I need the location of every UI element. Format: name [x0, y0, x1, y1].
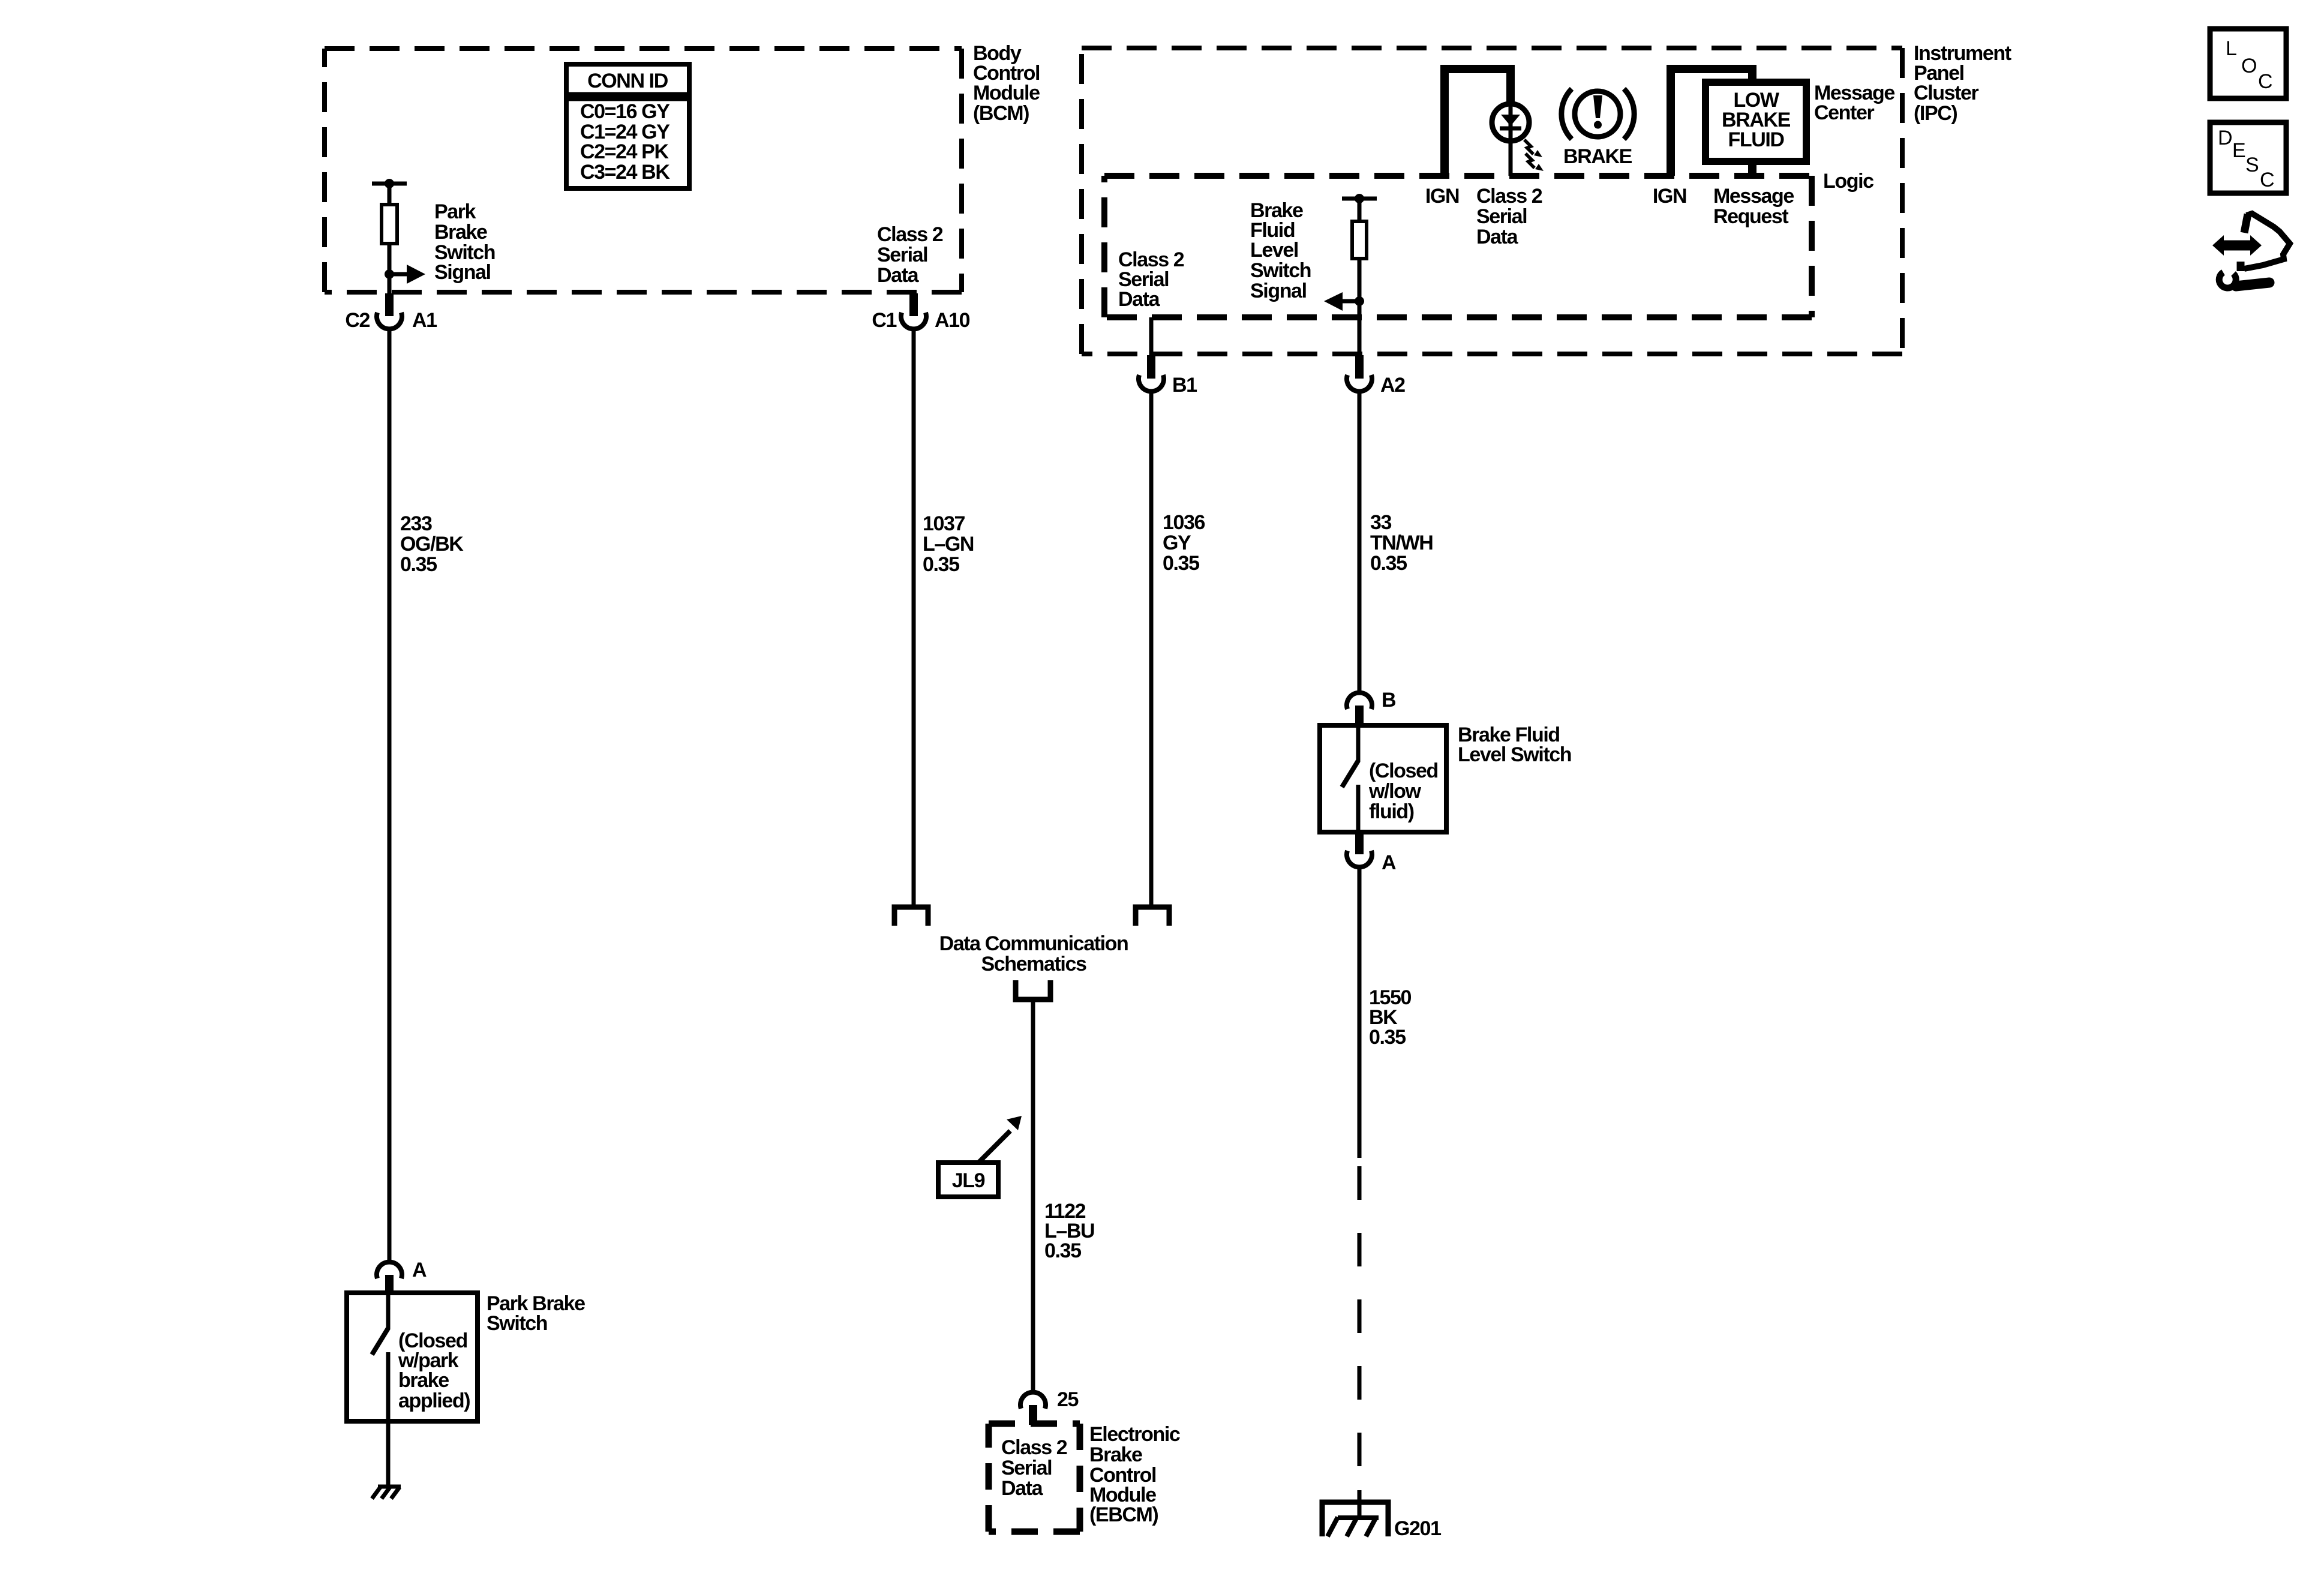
switch: park brake switch	[347, 1293, 478, 1421]
svg-text:BRAKE: BRAKE	[1563, 145, 1632, 168]
svg-text:C2=24 PK: C2=24 PK	[580, 140, 669, 163]
connector C2/A1 at BCM	[377, 293, 402, 329]
svg-text:Module: Module	[973, 82, 1040, 104]
EBCM name label	[1089, 1423, 1180, 1526]
node: rail junction dot	[385, 179, 394, 188]
signal arrow (Park Brake Switch Signal)	[389, 265, 425, 284]
svg-text:Data: Data	[1001, 1477, 1044, 1500]
svg-text:Request: Request	[1713, 205, 1788, 228]
resistor: park brake switch signal pull-up	[382, 205, 397, 244]
svg-text:Electronic: Electronic	[1089, 1423, 1180, 1446]
svg-text:Schematics: Schematics	[981, 953, 1086, 975]
pin label C2	[345, 309, 370, 332]
svg-text:Level Switch: Level Switch	[1458, 743, 1571, 766]
pin label A2	[1380, 374, 1405, 397]
svg-text:S: S	[2245, 154, 2259, 176]
wire into ground	[1358, 1490, 1362, 1518]
wire: logic to IPC border (A2)	[1358, 317, 1362, 355]
svg-text:A2: A2	[1380, 374, 1405, 397]
label: Park Brake Switch	[487, 1292, 585, 1335]
JL9 option box	[938, 1163, 998, 1197]
CONN ID table	[566, 64, 689, 188]
svg-text:Level: Level	[1250, 239, 1298, 262]
svg-text:IGN: IGN	[1425, 185, 1459, 208]
pin label B1	[1172, 374, 1197, 397]
label: Class 2 Serial Data (IPC logic)	[1118, 248, 1184, 311]
ground label G201	[1394, 1517, 1441, 1540]
chassis ground (park brake switch)	[372, 1487, 401, 1499]
wire label 233 OG/BK 0.35	[400, 512, 464, 576]
connector A at park brake switch	[377, 1262, 402, 1294]
label: Class 2 Serial Data (BCM)	[877, 223, 943, 287]
LED light arrows	[1524, 140, 1544, 171]
label IGN (message center)	[1653, 185, 1686, 208]
wire: park brake pull-up rail	[372, 182, 407, 186]
brake fluid pull-up rail	[1342, 197, 1377, 201]
svg-text:OG/BK: OG/BK	[400, 533, 464, 556]
svg-text:L: L	[2226, 37, 2237, 60]
IGN feed for message center	[1667, 65, 1756, 176]
off-page bracket (1037 wire)	[894, 907, 928, 926]
switch: brake fluid level switch	[1320, 725, 1446, 832]
node: signal junction dot	[385, 269, 394, 279]
pin label A1	[412, 309, 437, 332]
svg-text:Switch: Switch	[487, 1312, 547, 1335]
svg-text:C: C	[2260, 169, 2275, 191]
wire: rail to resistor (IPC)	[1358, 199, 1362, 221]
label: Message Request	[1713, 185, 1794, 228]
connector B at brake fluid level switch	[1347, 693, 1372, 727]
IPC name label	[1914, 42, 2011, 125]
svg-text:A: A	[1382, 851, 1396, 874]
svg-text:A10: A10	[935, 309, 970, 332]
wire 33 TN/WH (A2 to brake fluid level switch)	[1358, 391, 1362, 693]
svg-text:D: D	[2218, 127, 2233, 149]
BRAKE telltale icon	[1562, 89, 1634, 139]
wire label 1122 L-BU 0.35	[1044, 1200, 1094, 1262]
svg-text:Data: Data	[877, 264, 920, 287]
svg-text:Serial: Serial	[1476, 205, 1527, 228]
svg-text:0.35: 0.35	[1369, 1026, 1406, 1049]
pin label 25	[1057, 1388, 1079, 1411]
svg-text:0.35: 0.35	[1370, 552, 1407, 575]
pin label A (brake fluid level switch)	[1382, 851, 1396, 874]
LED telltale (BRAKE indicator lamp)	[1492, 104, 1529, 176]
svg-text:Cluster: Cluster	[1914, 82, 1979, 104]
wire 1036 GY (B1 to data communication)	[1149, 391, 1154, 905]
svg-text:IGN: IGN	[1653, 185, 1686, 208]
svg-text:0.35: 0.35	[1044, 1239, 1081, 1262]
wire label 1550 BK 0.35	[1369, 986, 1412, 1049]
wire label 33 TN/WH 0.35	[1370, 511, 1433, 575]
label: Data Communication Schematics	[939, 932, 1128, 975]
svg-text:0.35: 0.35	[1163, 552, 1199, 575]
svg-text:O: O	[2241, 55, 2257, 77]
wire to chassis ground	[386, 1421, 391, 1487]
module box EBCM (dashed)	[989, 1424, 1080, 1532]
resistor: brake fluid level switch signal pull-up	[1352, 221, 1367, 259]
connector 25 at EBCM	[1020, 1392, 1046, 1425]
svg-text:G201: G201	[1394, 1517, 1441, 1540]
wire 1037 L-GN (A10 to data communication)	[912, 329, 916, 905]
svg-text:C1: C1	[872, 309, 896, 332]
logic box (IPC Logic)	[1104, 176, 1812, 317]
svg-text:0.35: 0.35	[923, 553, 959, 576]
wire: resistor to BCM border	[388, 244, 392, 293]
svg-text:233: 233	[400, 512, 432, 535]
svg-text:Class 2: Class 2	[877, 223, 943, 246]
svg-text:JL9: JL9	[952, 1169, 985, 1192]
connector B1 at IPC	[1139, 355, 1164, 391]
label: Class 2 Serial Data (telltale driver)	[1476, 185, 1542, 248]
svg-text:33: 33	[1370, 511, 1392, 534]
svg-text:GY: GY	[1163, 532, 1191, 554]
svg-text:Logic: Logic	[1823, 170, 1873, 193]
svg-text:Signal: Signal	[1250, 280, 1307, 302]
wire label 1036 GY 0.35	[1163, 511, 1205, 575]
svg-text:E: E	[2232, 139, 2246, 162]
wire 1550 BK (switch to splice)	[1358, 867, 1362, 1158]
svg-text:B1: B1	[1172, 374, 1197, 397]
node: brake fluid signal junction dot	[1355, 296, 1364, 306]
label: Class 2 Serial Data (EBCM)	[1001, 1436, 1067, 1500]
label: Brake Fluid Level Switch Signal	[1250, 199, 1311, 302]
label Logic	[1823, 170, 1873, 193]
connector A at brake fluid level switch	[1347, 832, 1372, 867]
svg-text:(EBCM): (EBCM)	[1089, 1503, 1158, 1526]
svg-text:applied): applied)	[398, 1389, 470, 1412]
svg-text:Class 2: Class 2	[1476, 185, 1542, 208]
DESC navigation box	[2210, 122, 2286, 193]
svg-text:Data Communication: Data Communication	[939, 932, 1128, 955]
pin label C1	[872, 309, 896, 332]
wire: resistor to logic border	[1358, 259, 1362, 317]
off-page bracket (to EBCM)	[1016, 980, 1050, 999]
svg-text:FLUID: FLUID	[1728, 128, 1784, 151]
svg-text:Signal: Signal	[434, 261, 491, 284]
wire label 1037 L-GN 0.35	[923, 512, 974, 576]
svg-text:w/low: w/low	[1368, 780, 1422, 803]
LOW BRAKE FLUID message box	[1706, 82, 1806, 161]
svg-text:0.35: 0.35	[400, 553, 437, 576]
pin label B	[1382, 689, 1396, 712]
wire 233 OG/BK (A1 to park brake switch)	[388, 329, 392, 1262]
ground G201	[1322, 1502, 1388, 1536]
pin label A10	[935, 309, 970, 332]
module box IPC (Instrument Panel Cluster)	[1082, 48, 1902, 354]
svg-text:1036: 1036	[1163, 511, 1205, 534]
label: (Closed w/park brake applied)	[398, 1329, 470, 1412]
svg-text:Data: Data	[1476, 226, 1519, 248]
wire: rail to resistor	[388, 184, 392, 205]
svg-text:Brake: Brake	[434, 221, 487, 244]
svg-text:Serial: Serial	[1001, 1457, 1052, 1479]
component-view navigation icon (arrow, part outline, wrench)	[2212, 214, 2290, 288]
pin label A (park brake switch)	[412, 1259, 427, 1281]
svg-text:Brake: Brake	[1089, 1443, 1142, 1466]
svg-text:Park: Park	[434, 200, 476, 223]
svg-text:A: A	[412, 1259, 427, 1281]
svg-text:CONN ID: CONN ID	[587, 70, 668, 92]
svg-text:Message: Message	[1713, 185, 1794, 208]
svg-text:Data: Data	[1118, 288, 1161, 311]
svg-text:Serial: Serial	[877, 244, 927, 266]
module box BCM (Body Control Module)	[325, 49, 962, 292]
svg-text:B: B	[1382, 689, 1396, 712]
svg-text:1037: 1037	[923, 512, 965, 535]
wire: logic to IPC border (B1)	[1149, 317, 1154, 355]
off-page bracket (1036 wire)	[1136, 907, 1169, 926]
svg-text:(Closed: (Closed	[1369, 760, 1438, 782]
wire: message box to logic	[1748, 161, 1756, 176]
IGN feed for BRAKE telltale	[1440, 65, 1515, 176]
label BRAKE	[1563, 145, 1632, 168]
svg-text:Center: Center	[1814, 101, 1874, 124]
svg-text:(BCM): (BCM)	[973, 102, 1029, 125]
label Message Center	[1814, 82, 1894, 124]
wire 1122 L-BU (to EBCM)	[1031, 999, 1035, 1392]
svg-text:brake: brake	[398, 1369, 449, 1392]
svg-text:L–GN: L–GN	[923, 533, 974, 556]
connector C1/A10 at BCM	[901, 293, 926, 329]
svg-text:Class 2: Class 2	[1001, 1436, 1067, 1459]
BCM name label	[973, 42, 1040, 125]
label IGN (brake telltale)	[1425, 185, 1459, 208]
LOC navigation box	[2210, 29, 2286, 98]
svg-text:25: 25	[1057, 1388, 1079, 1411]
svg-text:TN/WH: TN/WH	[1370, 532, 1433, 554]
connector A2 at IPC	[1347, 355, 1372, 391]
svg-text:C2: C2	[345, 309, 370, 332]
dashed wire to ground G201	[1358, 1166, 1362, 1467]
label: (Closed w/low fluid)	[1368, 760, 1438, 823]
signal arrow (Brake Fluid Level Switch Signal)	[1324, 292, 1359, 311]
svg-text:A1: A1	[412, 309, 437, 332]
svg-text:C: C	[2258, 70, 2273, 93]
svg-text:C3=24 BK: C3=24 BK	[580, 161, 670, 184]
svg-text:C0=16 GY: C0=16 GY	[580, 100, 670, 123]
svg-text:Switch: Switch	[1250, 259, 1311, 282]
label: Brake Fluid Level Switch	[1458, 724, 1571, 766]
JL9 option arrow	[979, 1116, 1022, 1162]
label: Park Brake Switch Signal	[434, 200, 495, 284]
svg-text:(IPC): (IPC)	[1914, 102, 1957, 125]
svg-text:fluid): fluid)	[1369, 800, 1414, 823]
node: rail junction dot (IPC)	[1355, 194, 1364, 203]
